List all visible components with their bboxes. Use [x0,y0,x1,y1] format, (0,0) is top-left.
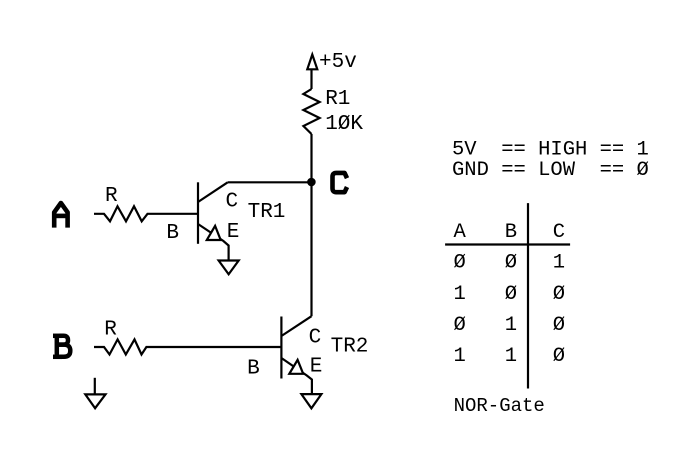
svg-text:1: 1 [454,345,466,368]
svg-text:GND == LOW == Ø: GND == LOW == Ø [452,159,649,182]
svg-text:C: C [309,326,322,349]
svg-text:1: 1 [553,252,565,275]
svg-text:E: E [310,355,323,378]
svg-text:B: B [505,221,517,244]
svg-text:+5v: +5v [319,51,357,74]
svg-text:Ø: Ø [553,345,565,368]
svg-text:Ø: Ø [454,252,466,275]
svg-text:1: 1 [454,283,466,306]
svg-text:R: R [105,185,118,208]
svg-text:1: 1 [505,314,517,337]
svg-text:TR1: TR1 [248,201,286,224]
svg-text:A: A [454,221,467,244]
svg-text:NOR-Gate: NOR-Gate [454,395,545,417]
svg-text:Ø: Ø [553,314,565,337]
svg-text:Ø: Ø [505,252,517,275]
svg-text:1: 1 [505,345,517,368]
svg-text:C: C [226,191,239,214]
svg-text:TR2: TR2 [331,336,369,359]
svg-text:Ø: Ø [454,314,466,337]
svg-text:Ø: Ø [553,283,565,306]
svg-text:C: C [553,221,565,244]
svg-text:Ø: Ø [505,283,517,306]
svg-text:R1: R1 [325,88,350,111]
svg-text:B: B [166,222,179,245]
svg-text:B: B [247,358,260,381]
svg-text:1ØK: 1ØK [325,113,363,136]
svg-text:R: R [104,319,117,342]
svg-text:E: E [227,221,240,244]
